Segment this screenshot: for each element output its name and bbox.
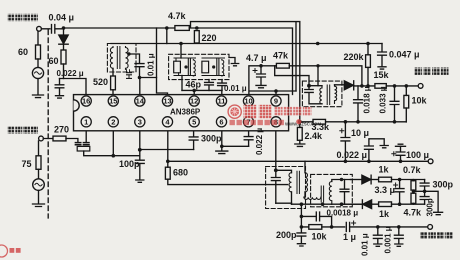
IC U1 AN386P body (74, 95, 289, 131)
wire AM bottom rail (326, 121, 407, 123)
wire node to y43 rail (166, 28, 168, 44)
pin 1 (81, 117, 91, 127)
svg-text:4.7k: 4.7k (404, 208, 423, 218)
dashed box ceramic filter (169, 54, 229, 79)
resistor R11 2.4k (297, 127, 302, 140)
wire node to input drop + pin14 (140, 78, 157, 96)
svg-text:270: 270 (54, 125, 69, 135)
node det transformer feed (316, 64, 319, 67)
wire 1k bottom to caps (392, 203, 425, 205)
ground (C6) (256, 85, 266, 87)
capacitor C25 0.01u (373, 227, 382, 244)
wire pin6 to pin7 (222, 145, 249, 147)
svg-text:300p: 300p (426, 198, 435, 216)
wire det feed drop (317, 66, 319, 86)
wire T3 primary bottom (291, 192, 293, 204)
capacitor C5 0.01u (218, 80, 227, 91)
ground (300p) (434, 212, 443, 214)
node rail 10u bottom (344, 160, 348, 164)
wire pin1 drop (85, 131, 87, 143)
wire R2 to rail (63, 64, 65, 79)
svg-text:AN386P: AN386P (170, 108, 201, 117)
capacitor C9 0.018u (354, 86, 363, 122)
svg-text:75: 75 (22, 159, 32, 169)
wire 75 to source (38, 169, 40, 179)
transformer T2 core (327, 85, 330, 105)
wire input drop to HF box (157, 28, 168, 96)
resonator X1 plates (174, 61, 181, 73)
node R17-R18 mid (412, 190, 415, 193)
node 0.0018 left (300, 215, 304, 219)
node 10k top (405, 84, 409, 88)
ground tick (C8) (378, 67, 386, 69)
capacitor C3 0.01u (135, 64, 144, 78)
svg-text:220k: 220k (344, 52, 365, 62)
ground (AM source) (33, 95, 44, 98)
transformer T2 primary (320, 86, 322, 104)
capacitor C13 100u electrolytic (396, 146, 405, 161)
node pin6 (220, 145, 224, 149)
transformer T2 secondary (335, 85, 337, 104)
pin 16 (81, 96, 91, 106)
svg-text:100 μ: 100 μ (406, 150, 429, 160)
wire 220k leads (367, 44, 369, 86)
AC source G1 (32, 67, 43, 78)
wire T3 secondary bottom to T4 (304, 192, 305, 197)
IC notch (74, 100, 80, 111)
transformer T3 primary (289, 173, 292, 192)
capacitor C1 0.04u (52, 25, 65, 34)
capacitor C19 3.3u electrolytic (395, 180, 404, 205)
wire 10k leads (301, 226, 331, 228)
dashed box AM detector transformer (302, 81, 342, 107)
pin 5 (189, 117, 199, 127)
plus C13 (392, 152, 396, 156)
plus C19 (394, 183, 398, 187)
node rail 0.022 (367, 160, 371, 164)
node rail 10u (344, 120, 348, 124)
node det out b (366, 84, 370, 88)
wire box1 top (276, 170, 292, 172)
pin 9 (271, 96, 281, 106)
watermark text dianzi shichang wang (274, 107, 311, 116)
pin 14 (135, 96, 145, 106)
label AM output (调幅输出) (415, 68, 423, 76)
ground (C15) (136, 180, 144, 182)
svg-text:60: 60 (18, 47, 28, 57)
node 300p mid (423, 190, 427, 194)
svg-text:4.7k: 4.7k (168, 11, 187, 21)
node 10k-1u (330, 225, 334, 229)
svg-text:1 μ: 1 μ (343, 232, 356, 242)
filter unit 1 top/bottom bus (174, 58, 196, 76)
resistor R10 3.3k (313, 119, 326, 124)
resistor R13 270 (53, 136, 66, 141)
node A (0.04u output) (62, 26, 66, 30)
dashed boundary line (47, 30, 49, 218)
svg-text:0.033 μ: 0.033 μ (379, 86, 388, 113)
wire filter left drop to 46p rail (181, 76, 183, 91)
node pin8 box (274, 168, 278, 172)
node video out a (376, 225, 380, 229)
node 4.7u top (259, 64, 263, 68)
wire pin11 stub (221, 90, 223, 95)
filter unit 2 top/bottom bus (202, 58, 225, 76)
winding L1 bars (188, 59, 190, 76)
pin 2 (108, 117, 118, 127)
node rail 100u (399, 160, 403, 164)
wire G2 to ground (38, 190, 40, 203)
wire AM terminal to C1 (38, 29, 50, 45)
resistor R18 4.7k (411, 193, 416, 203)
resistor R1 60 (input shunt) (36, 45, 41, 59)
transformer T4 primary (horizontal) (304, 197, 321, 199)
resistor R16 1k (379, 202, 392, 207)
node filter mid 1 (184, 65, 187, 68)
watermark char ku (库) (259, 105, 272, 119)
ground (C2) (56, 96, 64, 98)
wire D1 to R2 (63, 45, 65, 51)
wire T4 secondary top rail (332, 180, 351, 182)
wire CF to pin2 rail (84, 151, 140, 156)
node det cap (307, 84, 311, 88)
resonator X2 plates (202, 61, 209, 73)
wire pin2 drop (112, 131, 114, 156)
svg-text:9: 9 (274, 97, 278, 106)
capacitor C14 300p (189, 131, 198, 150)
capacitor C2 0.022u (55, 79, 64, 96)
svg-text:11: 11 (218, 97, 226, 106)
node 3.3u top (398, 178, 402, 182)
watermark corner remnant (0, 245, 21, 257)
capacitor C6 4.7u electrolytic (257, 66, 266, 85)
resistor R7 220k (366, 55, 371, 68)
resistor R6 47k (276, 63, 289, 68)
wire pin3 node to 300p (140, 149, 194, 151)
wire 1k to caps (392, 179, 425, 181)
svg-text:520: 520 (93, 77, 108, 87)
node video out b (397, 225, 401, 229)
wire R6 right to detector (289, 66, 362, 86)
svg-text:0.01 μ: 0.01 μ (224, 84, 247, 93)
wire node A to R3 (64, 28, 175, 35)
dual capacitor CF body (77, 146, 90, 151)
wire pin3 drop (139, 131, 141, 150)
svg-text:220: 220 (202, 33, 217, 43)
winding L1 bumps (193, 60, 195, 77)
capacitor C18 (T4 tuning) (340, 180, 349, 205)
wire rail y43 (111, 43, 382, 45)
pin 11 (216, 96, 226, 106)
diode D2 AM det (344, 81, 353, 90)
svg-text:300p: 300p (201, 134, 222, 144)
top bar (C13) (396, 144, 406, 146)
ground (C12) (380, 146, 388, 148)
ground (pin6) (216, 146, 228, 153)
wire 47k tap (275, 66, 309, 86)
wire top rail to D3 (351, 179, 362, 181)
ground (200p) (297, 244, 305, 246)
svg-text:12: 12 (190, 97, 198, 106)
pin 10 (243, 96, 253, 106)
wire 270 to dual cap (66, 139, 78, 143)
ground (C26) (395, 244, 403, 246)
svg-text:10: 10 (244, 97, 252, 106)
node box2 a (321, 202, 325, 206)
capacitor C8 0.047u (378, 44, 387, 67)
transformer T1 core (117, 47, 120, 69)
transformer T4 core (321, 186, 323, 202)
node filter feed (179, 42, 183, 46)
svg-text:15: 15 (109, 97, 117, 106)
wire mid tap to gnd corner (413, 191, 438, 212)
svg-text:2: 2 (111, 117, 115, 126)
ground (C25) (374, 244, 382, 246)
wire video net drop detail (300, 204, 302, 227)
resistor R15 1k (379, 177, 392, 182)
resistor R2 60 (61, 50, 66, 64)
node rail 0.033 (393, 120, 397, 124)
node 3.3u bottom (398, 202, 402, 206)
svg-text:3: 3 (138, 117, 142, 126)
capacitor C12 0.022u (365, 139, 385, 162)
node T1 secondary tap (127, 52, 130, 55)
resistor R8 15k (375, 84, 386, 89)
wire pin9 stub (275, 91, 277, 95)
resistor R4 220 (194, 31, 199, 43)
label AM input (调幅输入) (8, 14, 15, 21)
wire tap to C3 (129, 54, 140, 63)
svg-text:WWW.DZSC.COM: WWW.DZSC.COM (285, 121, 321, 126)
svg-text:1k: 1k (379, 209, 390, 219)
svg-text:HF: HF (125, 69, 134, 80)
svg-text:0.018 μ: 0.018 μ (363, 86, 372, 113)
dashed box video driver transformer (266, 167, 306, 209)
wire video det bottom rail (276, 203, 363, 204)
plus C6 (253, 69, 257, 73)
resistor R14 75 (36, 156, 41, 170)
svg-text:0.022 μ: 0.022 μ (337, 150, 368, 160)
svg-text:15k: 15k (374, 70, 390, 80)
node video net drop (300, 202, 304, 206)
svg-text:1k: 1k (379, 165, 390, 175)
svg-text:5: 5 (192, 117, 196, 126)
wire T2 secondary to D2 (335, 84, 345, 86)
svg-text:14: 14 (136, 97, 145, 106)
node pin12 (192, 89, 196, 93)
node det out a (360, 84, 364, 88)
resistor R3 4.7k (175, 26, 189, 31)
plus C11 (340, 129, 344, 133)
svg-text:13: 13 (163, 97, 171, 106)
node AM det feed (316, 42, 320, 46)
node 0.033 top (393, 84, 397, 88)
pin 6 (216, 117, 226, 127)
capacitor C7 (det) (305, 86, 322, 104)
winding L2 bumps (222, 60, 224, 77)
node pin8 net (298, 120, 302, 124)
node box2 b (340, 202, 344, 206)
terminal video output (428, 225, 433, 230)
svg-text:10k: 10k (312, 232, 328, 242)
wire pin4 drop (167, 131, 169, 162)
capacitor C24 1u electrolytic (332, 222, 428, 231)
wire 46p rail (182, 89, 222, 91)
wire T3 secondary up to rail (304, 161, 306, 172)
plus C24 (352, 221, 356, 225)
mini ground (filter box right) (229, 58, 239, 66)
AC source G2 (33, 179, 45, 191)
svg-text:0.01 μ: 0.01 μ (361, 233, 370, 256)
watermark char wei (维) (244, 105, 257, 119)
watermark red node dot (296, 119, 301, 124)
node 220k top (366, 42, 370, 46)
capacitor C21 300p bottom (420, 191, 429, 204)
wire D3 to 1k (371, 179, 379, 181)
capacitor C15 100p (135, 150, 144, 180)
dashed box HF transformer (107, 44, 136, 73)
svg-text:100p: 100p (119, 159, 140, 169)
watermark logo circle (228, 105, 241, 118)
terminal AM input (37, 26, 42, 31)
capacitor C26 0.001u (394, 227, 403, 244)
svg-text:0.047 μ: 0.047 μ (389, 50, 420, 60)
watermark slogan row (230, 120, 284, 125)
node 4.7k left (165, 26, 169, 30)
capacitor C10 0.033u (390, 86, 399, 122)
node pin9 bypass (274, 89, 278, 93)
svg-text:0.01 μ: 0.01 μ (147, 53, 156, 76)
svg-text:60: 60 (49, 56, 59, 66)
wire R17/R18 leads (412, 180, 414, 205)
pin 4 (162, 117, 172, 127)
wire pin6 drop (221, 131, 223, 147)
resistor R9 10k (404, 95, 409, 108)
svg-text:0.022 μ: 0.022 μ (255, 128, 264, 155)
wire pin8 node to 3.3k (300, 121, 313, 123)
wire 680 leads + bottom wire (168, 161, 288, 184)
terminal AM output (418, 84, 423, 89)
wire R5 to pin15 (112, 90, 114, 95)
capacitor C22 0.0018u (301, 212, 331, 227)
wire D4 leads (352, 203, 378, 205)
pin 13 (162, 96, 172, 106)
ground (video source) (33, 204, 45, 207)
wire T4 bottom rail exit (342, 203, 353, 205)
svg-text:0.0018 μ: 0.0018 μ (327, 209, 359, 218)
svg-text:1: 1 (84, 117, 88, 126)
wire R1 to source (37, 59, 39, 68)
node pin3 net (138, 148, 142, 152)
terminal mid output (428, 159, 433, 164)
capacitor C20 300p top (420, 180, 429, 192)
transformer T1 primary winding (110, 47, 113, 70)
wire T1 primary to R5 (112, 69, 114, 77)
wire R3 right + upper loop (189, 22, 299, 122)
wire 10k leads (405, 86, 407, 122)
diode D4 (video bottom, left) (362, 200, 371, 209)
svg-text:10 μ: 10 μ (351, 128, 369, 138)
svg-text:300p: 300p (433, 180, 454, 190)
dual capacitor CF (pin1) (75, 143, 89, 145)
wire filter feed drop (180, 44, 182, 59)
capacitor C4 46p (205, 80, 214, 91)
wire G1 to ground (37, 79, 39, 95)
resistor R17 0.7k (411, 181, 416, 190)
node pin14 top (138, 76, 142, 80)
wire 15k right to AM out (386, 85, 418, 87)
wire pin12 stub (193, 90, 195, 95)
resonator X1 leads (176, 58, 179, 76)
transformer T4 secondary (329, 182, 332, 205)
winding L2 bars (217, 59, 219, 76)
capacitor C17 (box1) (271, 170, 280, 203)
node 220 top (195, 26, 199, 30)
pin 7 (243, 117, 253, 127)
wire 0.022u rail to pin16 (60, 79, 87, 96)
svg-text:0.001 μ: 0.001 μ (384, 226, 393, 253)
pin 12 (189, 96, 199, 106)
node filter mid 2 (212, 65, 215, 68)
label video output (视频输出) (420, 232, 427, 239)
node 10k left (300, 225, 304, 229)
wire 2.4k leads (299, 122, 301, 144)
diode D3 (video top) (362, 175, 371, 184)
node T4 cap top (340, 178, 343, 181)
pin 15 (108, 96, 118, 106)
capacitor C23 200p (297, 227, 306, 244)
pin 3 (135, 117, 145, 127)
svg-text:6: 6 (219, 117, 223, 126)
pin 8 (271, 117, 281, 127)
svg-text:10k: 10k (412, 96, 428, 106)
transformer T3 secondary (305, 173, 308, 192)
node rail pin4 (166, 160, 170, 164)
dashed box video det transformer (311, 174, 353, 206)
svg-text:2.4k: 2.4k (305, 131, 324, 141)
svg-text:16: 16 (82, 97, 90, 106)
svg-text:46p: 46p (186, 80, 202, 90)
svg-text:0.04 μ: 0.04 μ (49, 13, 75, 23)
wire pin8 drop (275, 131, 277, 171)
wire pin10 riser / L-wire (249, 66, 296, 96)
transformer T1 secondary winding (126, 47, 129, 70)
svg-text:680: 680 (173, 168, 188, 178)
svg-text:47k: 47k (273, 51, 289, 61)
ground (2.4k) (295, 144, 305, 146)
label video input (视频输入) (8, 126, 15, 133)
capacitor C16 0.022u (pin7) (244, 131, 253, 147)
svg-text:0.7k: 0.7k (403, 165, 422, 175)
resistor R5 520 (111, 76, 116, 90)
node pin2 (112, 154, 116, 158)
transformer T3 core (297, 171, 299, 193)
resistor R12 680 (165, 167, 170, 179)
wire video in to 270 (39, 139, 54, 156)
svg-text:4.7 μ: 4.7 μ (246, 53, 267, 63)
node rail 0.018 (356, 120, 360, 124)
capacitor C11 10u electrolytic (341, 122, 350, 161)
resistor R19 10k (309, 225, 322, 230)
terminal video input (39, 136, 44, 141)
svg-text:3.3 μ: 3.3 μ (375, 185, 396, 195)
wire AM det node (354, 85, 375, 87)
diode D1 (59, 35, 68, 44)
wire lower rail (168, 160, 428, 162)
svg-text:200p: 200p (276, 230, 297, 240)
svg-text:0.022 μ: 0.022 μ (57, 69, 84, 78)
wire det node (309, 85, 322, 87)
